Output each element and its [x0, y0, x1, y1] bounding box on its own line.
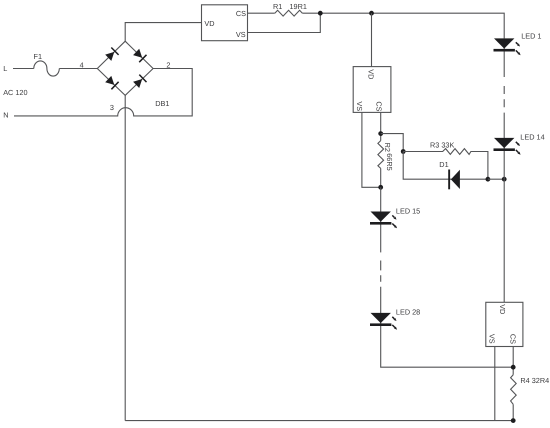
svg-text:CS: CS: [375, 101, 384, 111]
LED 1: [503, 38, 505, 77]
svg-text:66R5: 66R5: [385, 153, 394, 170]
wire bridge top vertex to U1 VD pin: [125, 23, 201, 42]
wire R4 to bottom rail: [512, 404, 514, 420]
resistor R4: [511, 375, 517, 405]
svg-text:VS: VS: [236, 30, 246, 39]
resistor R2: [378, 141, 384, 169]
wire U1 CS pin to R1: [248, 12, 275, 14]
svg-text:4: 4: [80, 60, 84, 69]
svg-text:VD: VD: [366, 69, 375, 79]
wire U3 VS pin to bottom rail: [494, 347, 496, 421]
wire bridge bottom vertex down left side: [124, 95, 126, 420]
LED 15: [380, 187, 382, 252]
resistor R1: [275, 10, 303, 16]
svg-text:3: 3: [110, 103, 114, 112]
node junction R3/D1 right: [486, 177, 491, 182]
node junction main line: [502, 177, 507, 182]
bridge diode top-right (top to right): [133, 49, 142, 58]
svg-text:N: N: [3, 111, 8, 120]
wire main line to U3 VD: [503, 179, 505, 302]
svg-text:LED 14: LED 14: [520, 133, 544, 142]
LED 28: [371, 313, 391, 323]
wire fuse to bridge left vertex (pin 4): [59, 68, 97, 70]
node junction CS3/R4: [511, 365, 516, 370]
wire D1 branch: [403, 152, 488, 180]
node junction U2 VD tap: [369, 11, 374, 16]
bridge rectifier DB1 diamond outline: [97, 41, 153, 95]
svg-text:D1: D1: [439, 160, 448, 169]
svg-text:R2: R2: [383, 143, 392, 152]
wire to LED 28: [381, 287, 514, 368]
wire dashed LED string gap right: [503, 86, 505, 116]
resistor R3: [403, 149, 488, 180]
svg-text:R4 32R4: R4 32R4: [520, 376, 549, 385]
svg-text:LED 15: LED 15: [396, 206, 420, 215]
wire L terminal to fuse: [13, 68, 34, 70]
op-amp U2 (controller box VD/VS/CS): [353, 67, 391, 113]
node junction VS2/R2: [378, 185, 383, 190]
node junction R1/VS: [318, 11, 323, 16]
svg-text:AC 120: AC 120: [3, 88, 27, 97]
wire dashed LED string gap left: [380, 261, 382, 282]
svg-text:F1: F1: [34, 52, 43, 61]
svg-text:VD: VD: [498, 304, 507, 314]
bridge diode bottom-left (left to bottom): [105, 76, 114, 85]
bridge diode top-left (left to top): [105, 52, 114, 61]
op-amp U1 (controller box VD/CS/VS): [202, 5, 248, 41]
fuse F1: [34, 61, 60, 76]
wire R2 bottom to VS node: [380, 168, 382, 187]
wire U1 VS pin up to R1 node: [248, 13, 321, 32]
wire U2 CS pin down to node: [380, 112, 382, 140]
wire N terminal with hop over vertical wire: [14, 69, 192, 116]
diode D1 (cathode left): [451, 170, 460, 189]
svg-text:LED 1: LED 1: [521, 32, 541, 41]
wire U3 CS pin to node: [512, 347, 514, 375]
wire U2 VS pin loop: [362, 112, 381, 187]
svg-text:R1: R1: [273, 2, 282, 11]
svg-text:CS: CS: [236, 9, 246, 18]
bridge diode bottom-right (bottom to right): [133, 79, 142, 88]
svg-text:VS: VS: [355, 101, 364, 111]
svg-text:DB1: DB1: [155, 99, 169, 108]
svg-text:R3 33K: R3 33K: [430, 141, 454, 150]
node junction R4/rail: [511, 418, 516, 423]
svg-text:VD: VD: [204, 19, 214, 28]
wire to LED 14: [503, 116, 505, 179]
svg-text:19R1: 19R1: [290, 2, 307, 11]
LED 14: [494, 138, 514, 148]
svg-text:L: L: [3, 64, 7, 73]
svg-text:VS: VS: [488, 334, 497, 344]
op-amp U3 (controller box VD/VS/CS): [486, 302, 523, 346]
svg-text:LED 28: LED 28: [396, 308, 420, 317]
node junction CS2/R2: [378, 131, 383, 136]
node junction R3/D1 left: [401, 149, 406, 154]
wire CS2 node to R3 branch: [381, 134, 404, 152]
wire to main line: [488, 178, 504, 180]
wire bottom rail: [125, 420, 513, 422]
svg-text:2: 2: [166, 60, 170, 69]
wire U2 VD drop: [371, 13, 373, 66]
svg-text:CS: CS: [508, 334, 517, 344]
wire R1 to top rail corner: [302, 13, 504, 38]
